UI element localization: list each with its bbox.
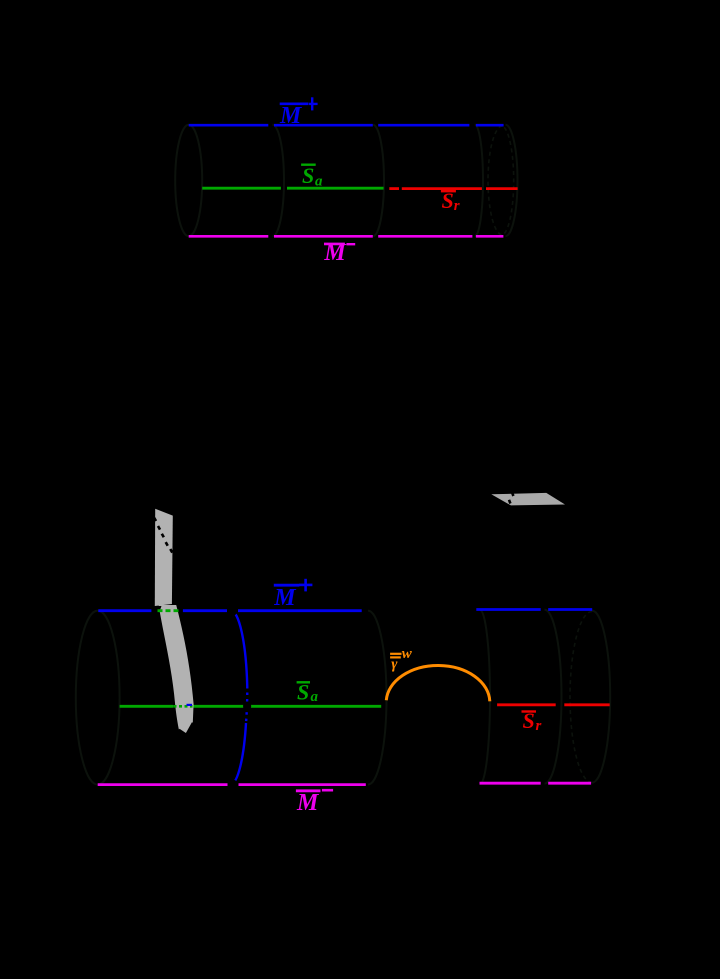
svg-text:M: M	[273, 585, 297, 611]
line M- bottom (magenta)	[189, 235, 504, 238]
cylinder circle 2 (front arc)	[273, 125, 284, 236]
line S_a (green)	[202, 187, 383, 190]
svg-text:M: M	[296, 790, 320, 816]
label S_r (fig2)	[522, 708, 542, 734]
label M+ (fig1)	[279, 97, 318, 129]
label S_a (fig1)	[301, 163, 323, 190]
green dashed segment on M+ under band	[158, 609, 181, 612]
dotted marks on parallelogram	[509, 492, 513, 503]
left cylinder left end cap ellipse	[76, 611, 120, 785]
line S_a fig2 (green)	[120, 705, 382, 708]
right cylinder end cap back arc (dashed)	[570, 612, 592, 783]
black intersection dot on M- at meridian	[228, 780, 238, 790]
black intersection dot on M+ at meridian	[228, 606, 238, 616]
gray parallelogram flap (top right)	[491, 493, 565, 506]
line M- right cylinder (magenta)	[480, 782, 592, 785]
right cylinder inner circle arc	[545, 610, 562, 784]
svg-text:a: a	[311, 689, 319, 705]
svg-text:S: S	[523, 708, 535, 733]
gray band over left cylinder (on-surface part)	[156, 605, 194, 735]
green dashed segment on S_a under band	[174, 705, 193, 708]
svg-text:a: a	[315, 173, 323, 189]
band lower tip dark edge	[179, 723, 193, 735]
cylinder circle 3 (front arc)	[373, 125, 384, 236]
line M+ top (blue)	[189, 124, 504, 127]
black intersection dot on S_a at meridian	[243, 702, 251, 710]
cylinder left end cap ellipse	[175, 125, 202, 236]
line S_r (red)	[389, 187, 517, 190]
svg-text:r: r	[454, 198, 460, 214]
right cylinder end cap front arc	[592, 611, 610, 783]
svg-text:S: S	[297, 680, 309, 705]
right cylinder left edge arc	[480, 610, 490, 784]
line M+ right cylinder (blue)	[476, 608, 592, 611]
gray band over left cylinder (upper part)	[155, 509, 173, 606]
svg-text:w: w	[402, 646, 413, 662]
svg-text:γ: γ	[391, 656, 398, 672]
cylinder right end cap back arc (dashed)	[488, 126, 514, 235]
svg-text:S: S	[442, 188, 454, 213]
svg-text:r: r	[536, 718, 542, 734]
svg-text:M: M	[323, 240, 347, 266]
band left notch at cylinder top	[154, 606, 162, 617]
orange connecting arc gamma	[386, 666, 490, 702]
svg-text:S: S	[302, 163, 314, 188]
line M+ left cylinder (blue)	[98, 609, 361, 612]
cylinder circle 4 inner right (front arc)	[475, 125, 483, 236]
dotted diagonal on band	[154, 518, 172, 553]
line S_r fig2 (red)	[497, 703, 610, 706]
label M- (fig1)	[323, 240, 355, 266]
left cylinder right edge arc	[368, 611, 387, 785]
label S_a (fig2)	[297, 680, 319, 706]
svg-text:M: M	[279, 103, 303, 129]
label S_r (fig1)	[441, 188, 460, 214]
cylinder right end cap front arc	[506, 125, 518, 236]
small blue dash on S_a right of band	[187, 704, 193, 706]
line M- left cylinder (magenta)	[98, 783, 366, 786]
blue meridian circle arc on left cylinder	[231, 611, 247, 785]
label M+ (fig2)	[273, 579, 312, 611]
label M- (fig2)	[296, 790, 333, 816]
label gamma^w (orange, double overbar)	[390, 646, 413, 673]
